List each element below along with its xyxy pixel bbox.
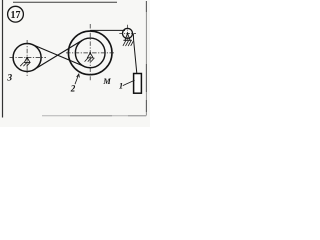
weight 1 xyxy=(134,74,142,94)
pulley 3 centerlines xyxy=(10,40,47,76)
wheel centerlines xyxy=(66,24,116,80)
belt (crossed) xyxy=(33,40,85,69)
pulley 3 xyxy=(13,44,41,72)
small pulley pivot xyxy=(123,33,133,46)
svg-text:2: 2 xyxy=(70,84,76,94)
small pulley centerlines xyxy=(119,25,136,40)
figure number 17 xyxy=(8,6,24,22)
leader to weight 1 xyxy=(123,80,135,85)
small pulley xyxy=(123,28,133,38)
wheel step 2 inner rim xyxy=(75,38,105,68)
svg-text:3: 3 xyxy=(6,73,12,83)
pulley 3 pivot xyxy=(20,57,30,67)
svg-text:1: 1 xyxy=(119,81,123,91)
wheel M outer rim xyxy=(68,31,112,75)
svg-text:M: M xyxy=(102,76,111,86)
cord from wheel top xyxy=(90,29,125,31)
svg-text:17: 17 xyxy=(11,10,21,21)
cord to weight xyxy=(133,34,137,73)
leader arrow to rim 2 xyxy=(75,74,79,84)
wheel pivot xyxy=(85,52,95,62)
